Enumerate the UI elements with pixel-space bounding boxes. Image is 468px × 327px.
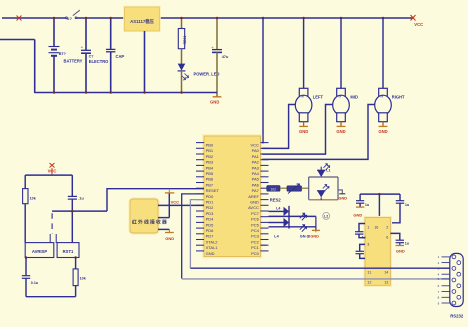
MCU pins right side (248, 143, 268, 256)
svg-text:GND: GND (396, 248, 405, 253)
svg-text:PB0: PB0 (206, 143, 214, 148)
svg-text:11: 11 (367, 271, 371, 275)
resistor RES2 (267, 186, 282, 203)
resistor R 10k lower (73, 258, 87, 297)
wire riser to RESET pin (107, 189, 204, 211)
svg-text:GND: GND (210, 100, 219, 105)
svg-text:GND: GND (165, 236, 174, 241)
svg-text:PB5: PB5 (206, 171, 214, 176)
svg-text:PD7: PD7 (206, 234, 215, 239)
capacitor C2+ charge pump (356, 244, 366, 258)
connector RST1 box (57, 243, 79, 258)
IR receiver module box (128, 197, 168, 234)
svg-text:RS232: RS232 (450, 314, 464, 319)
capacitor C1+ charge pump (355, 224, 366, 240)
wire IR gnd (158, 229, 169, 232)
svg-text:POWER_LED: POWER_LED (194, 72, 220, 77)
LED emitter B (284, 218, 290, 227)
svg-text:13: 13 (384, 280, 388, 284)
junction dots power rails (53, 17, 385, 94)
svg-text:MID: MID (350, 95, 358, 100)
capacitor C 0.1u lower (22, 258, 39, 297)
battery BT? (49, 18, 83, 93)
lamp L2 circle (323, 212, 330, 219)
svg-text:1u: 1u (405, 203, 410, 207)
svg-text:PA6: PA6 (252, 182, 260, 187)
svg-text:PA7: PA7 (252, 188, 260, 193)
svg-text:VCC: VCC (171, 200, 180, 205)
wire reset right vertical (71, 175, 73, 196)
capacitor C 0.1u reset (68, 196, 85, 242)
svg-text:PB2: PB2 (206, 154, 214, 159)
switch K? (66, 10, 80, 21)
wire reset top (25, 174, 72, 176)
svg-text:GND: GND (250, 200, 259, 205)
svg-text:PD4: PD4 (206, 217, 215, 222)
svg-text:PC1: PC1 (251, 245, 260, 250)
svg-text:L4: L4 (276, 207, 280, 211)
MCU U1 ATmega box (202, 134, 262, 258)
svg-text:RIGHT: RIGHT (392, 95, 405, 100)
IC U10 MAX232 box (363, 216, 392, 287)
svg-text:PB1: PB1 (206, 148, 214, 153)
capacitor C 1u pin6 (390, 233, 409, 245)
ground GND left-top cap (353, 207, 364, 217)
svg-text:1u: 1u (365, 203, 370, 207)
wire regulator GND leg (144, 31, 146, 93)
pin stub PC1 extended (261, 244, 267, 246)
svg-text:红外线接收器: 红外线接收器 (132, 218, 168, 225)
svg-text:XTAL1: XTAL1 (206, 245, 219, 250)
svg-text:M: M (381, 95, 384, 99)
wire RIGHT motor to PA2 (261, 105, 375, 160)
svg-text:1: 1 (367, 225, 369, 229)
svg-text:RES2: RES2 (270, 197, 282, 202)
ground GND under LEFT (299, 126, 308, 134)
svg-text:L2: L2 (324, 215, 328, 219)
LED emitter A (276, 206, 289, 229)
svg-text:0.1u: 0.1u (31, 281, 39, 285)
wire LEFT motor to PA0 (261, 105, 296, 149)
svg-text:VCC: VCC (414, 22, 423, 27)
svg-text:1u: 1u (362, 236, 366, 240)
wire reset bottom (26, 296, 76, 298)
svg-text:PD3: PD3 (206, 211, 215, 216)
svg-text:PC5: PC5 (251, 222, 260, 227)
ground GND LED loop (338, 190, 347, 200)
ground GND power rail (210, 97, 221, 105)
wire PD0 to serial (182, 194, 204, 279)
wire photodiode common (315, 216, 317, 230)
connector AVRISP box (25, 243, 54, 258)
svg-text:LEFT: LEFT (313, 95, 324, 100)
connector J1 DB9 (450, 253, 463, 306)
svg-text:PB7: PB7 (206, 182, 214, 187)
resistor R 10k pullup (23, 189, 37, 204)
svg-text:PD1: PD1 (206, 200, 215, 205)
svg-text:6: 6 (386, 236, 388, 240)
wire negative rail (0, 40, 217, 93)
wire LED loop rectangle (309, 177, 338, 200)
svg-text:BT?: BT? (59, 52, 67, 56)
svg-text:PB6: PB6 (206, 177, 214, 182)
svg-text:GND: GND (299, 129, 308, 134)
LED POWER_LED (178, 49, 220, 93)
ground GND IR (165, 233, 174, 242)
ground GND pin6 (396, 246, 405, 254)
svg-text:RESET: RESET (206, 188, 220, 193)
power VCC IR (165, 190, 179, 205)
svg-text:PC7: PC7 (251, 211, 260, 216)
wire top VCC rail (2, 17, 413, 19)
wire IR VCC riser (158, 193, 169, 218)
power VCC reset circuit (48, 163, 57, 175)
svg-text:GND: GND (206, 251, 215, 256)
svg-text:BATTERY: BATTERY (64, 58, 83, 63)
wire PC4 row (269, 226, 316, 228)
wire PC7 row (269, 210, 284, 212)
photodiode P2 (300, 225, 307, 232)
svg-text:PB4: PB4 (206, 165, 214, 170)
wire MAX232 top (360, 193, 400, 218)
svg-text:L1: L1 (326, 169, 330, 173)
svg-text:PA4: PA4 (252, 171, 260, 176)
svg-text:XTAL2: XTAL2 (206, 239, 219, 244)
wire PC5 row (269, 222, 284, 224)
svg-text:M: M (301, 95, 304, 99)
wire RXD line (182, 278, 450, 280)
motor LEFT (295, 18, 323, 126)
svg-text:PA1: PA1 (252, 154, 260, 159)
svg-text:PA3: PA3 (252, 165, 260, 170)
svg-text:10k: 10k (30, 196, 37, 200)
wire PD1 to serial (190, 200, 204, 269)
svg-text:M: M (339, 95, 342, 99)
switch push-button dashed (50, 213, 56, 243)
capacitor C 47u (211, 18, 229, 97)
junction dots under boxes (25, 256, 77, 259)
svg-text:PC3: PC3 (251, 234, 260, 239)
svg-text:VCC: VCC (250, 143, 259, 148)
motor MID (333, 18, 358, 126)
svg-text:RST1: RST1 (63, 249, 74, 254)
capacitor C 1u left-top (356, 194, 370, 207)
LED L3 lower (317, 185, 329, 200)
svg-text:PC4: PC4 (251, 228, 260, 233)
svg-text:PA5: PA5 (252, 177, 260, 182)
svg-text:RES1: RES1 (183, 35, 187, 44)
svg-text:16: 16 (374, 225, 378, 229)
svg-text:2: 2 (386, 225, 388, 229)
svg-text:PC6: PC6 (251, 217, 260, 222)
svg-text:PA0: PA0 (252, 148, 260, 153)
ground GND under RIGHT (378, 126, 387, 134)
wire reset mid (52, 210, 107, 213)
wire reset left vertical (24, 175, 26, 243)
svg-text:47u: 47u (222, 55, 229, 59)
svg-text:GND: GND (336, 129, 345, 134)
resistor R1 (LED series) (178, 18, 187, 49)
svg-text:.1u: .1u (78, 197, 84, 201)
capacitor C 1u right-top (390, 194, 410, 223)
junction cross on rail (17, 16, 22, 21)
svg-text:PC0: PC0 (251, 251, 260, 256)
power VCC arrow top right (411, 15, 424, 27)
svg-text:PD5: PD5 (206, 222, 215, 227)
svg-text:PD2: PD2 (206, 205, 215, 210)
svg-text:PD6: PD6 (206, 228, 215, 233)
svg-text:ELECTRO: ELECTRO (89, 59, 109, 64)
diode D photo element (280, 184, 309, 194)
motor RIGHT (375, 18, 405, 126)
svg-text:GND: GND (310, 234, 319, 238)
wire IR data to PD2 (158, 204, 204, 206)
svg-text:PA2: PA2 (252, 160, 260, 165)
capacitor CAP (106, 18, 124, 93)
MCU pins left side (196, 143, 219, 256)
photodiode P1 (300, 213, 307, 220)
svg-text:3: 3 (367, 243, 369, 247)
svg-text:AREF: AREF (248, 194, 259, 199)
svg-text:GND: GND (338, 195, 347, 200)
svg-text:K?: K? (67, 16, 73, 21)
wire TXD line (190, 267, 449, 269)
capacitor C? ELECTRO (81, 18, 109, 93)
svg-text:AVCC: AVCC (248, 205, 259, 210)
svg-text:PC2: PC2 (251, 239, 260, 244)
regulator U AS1117 box (123, 6, 161, 32)
svg-text:102: 102 (271, 187, 277, 191)
svg-text:14: 14 (384, 271, 388, 275)
svg-text:PD0: PD0 (206, 194, 215, 199)
svg-text:PB3: PB3 (206, 160, 214, 165)
wire PC6 row (269, 215, 316, 217)
svg-text:AVRISP: AVRISP (32, 249, 47, 254)
svg-text:GND: GND (353, 212, 362, 217)
ground GND sensors (300, 230, 320, 238)
svg-text:CAP: CAP (116, 54, 125, 59)
wire VCC rail to MCU VCC pin (261, 18, 264, 143)
svg-text:12: 12 (367, 280, 371, 284)
svg-text:1u: 1u (405, 241, 410, 245)
svg-text:GND: GND (378, 129, 387, 134)
LED L1 (317, 164, 331, 177)
ground GND under MID (336, 126, 345, 134)
DB9 pin stubs (438, 255, 450, 305)
svg-text:AS1117稳压: AS1117稳压 (130, 18, 154, 25)
wire MID motor to PA1 (261, 105, 333, 155)
svg-text:10k: 10k (80, 277, 87, 281)
